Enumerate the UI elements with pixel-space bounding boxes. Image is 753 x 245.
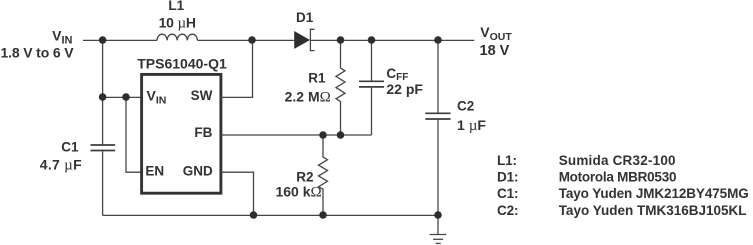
inductor L1 [157, 0, 197, 40]
node junction dot C2 top [434, 36, 442, 44]
svg-text:D1:: D1: [497, 170, 518, 185]
ground [430, 215, 447, 243]
node junction dot VIN pin left [99, 93, 107, 101]
capacitor CFF [359, 40, 423, 135]
capacitor C1 [40, 140, 115, 174]
svg-text:2.2 MΩ: 2.2 MΩ [285, 89, 331, 106]
node junction dot C2 bottom [434, 211, 442, 219]
wire inductor to diode [197, 39, 294, 41]
node VIN terminal label [1, 28, 75, 61]
svg-text:Motorola MBR0530: Motorola MBR0530 [559, 170, 677, 185]
wire EN [126, 97, 141, 172]
wire VIN to inductor [83, 39, 157, 41]
svg-text:22 pF: 22 pF [386, 81, 423, 97]
svg-text:FB: FB [194, 125, 212, 140]
svg-text:10 µH: 10 µH [159, 15, 196, 32]
node junction dot EN branch [122, 93, 130, 101]
node junction dot CFF top [368, 36, 376, 44]
wire ground rail [103, 214, 438, 216]
wire VIN pin [103, 96, 141, 98]
svg-text:EN: EN [145, 164, 164, 179]
op-amp U1 TPS61040-Q1 box [137, 56, 227, 194]
wire C1 vertical bottom [102, 151, 104, 215]
svg-text:SW: SW [191, 88, 213, 103]
svg-text:1.8 V to 6 V: 1.8 V to 6 V [1, 45, 75, 61]
svg-text:R2: R2 [296, 170, 313, 185]
svg-text:L1: L1 [168, 0, 184, 13]
svg-text:TPS61040-Q1: TPS61040-Q1 [137, 56, 227, 72]
svg-text:C2: C2 [457, 99, 474, 114]
node junction dot R2 bottom [319, 211, 327, 219]
parts list D1 [497, 170, 676, 185]
svg-text:GND: GND [183, 164, 213, 179]
svg-text:C2:: C2: [497, 203, 518, 218]
svg-text:VOUT: VOUT [480, 24, 512, 43]
svg-text:C1:: C1: [497, 186, 518, 201]
wire diode to VOUT [310, 39, 474, 41]
svg-text:18 V: 18 V [480, 43, 510, 59]
node junction dot FB/R2 [319, 131, 327, 139]
node junction dot R1 top [337, 36, 345, 44]
parts list L1 [497, 153, 676, 168]
svg-text:Sumida CR32-100: Sumida CR32-100 [559, 153, 676, 168]
parts list C1 [497, 186, 749, 201]
svg-text:1 µF: 1 µF [457, 117, 486, 134]
svg-text:R1: R1 [308, 70, 326, 85]
wire C1 vertical top [102, 40, 104, 144]
svg-text:Tayo Yuden JMK212BY475MG: Tayo Yuden JMK212BY475MG [559, 186, 749, 201]
svg-text:160 kΩ: 160 kΩ [275, 184, 321, 201]
wire SW pin [221, 40, 253, 97]
resistor R2 [275, 135, 327, 215]
resistor R1 [285, 40, 345, 135]
wire GND pin [221, 172, 254, 215]
svg-text:Tayo Yuden TMK316BJ105KL: Tayo Yuden TMK316BJ105KL [559, 203, 747, 218]
node junction dot SW [248, 36, 256, 44]
diode D1 [294, 10, 314, 51]
svg-text:C1: C1 [61, 140, 79, 155]
node junction dot GND rail [250, 211, 258, 219]
wire FB pin [221, 134, 372, 136]
node junction dot FB/R1 [337, 131, 345, 139]
node VOUT terminal label [480, 24, 513, 59]
svg-text:4.7 µF: 4.7 µF [40, 156, 82, 173]
svg-text:D1: D1 [296, 10, 314, 25]
node junction dot VIN/C1 [99, 36, 107, 44]
svg-text:L1:: L1: [497, 153, 517, 168]
parts list C2 [497, 203, 747, 218]
capacitor C2 [425, 40, 486, 215]
